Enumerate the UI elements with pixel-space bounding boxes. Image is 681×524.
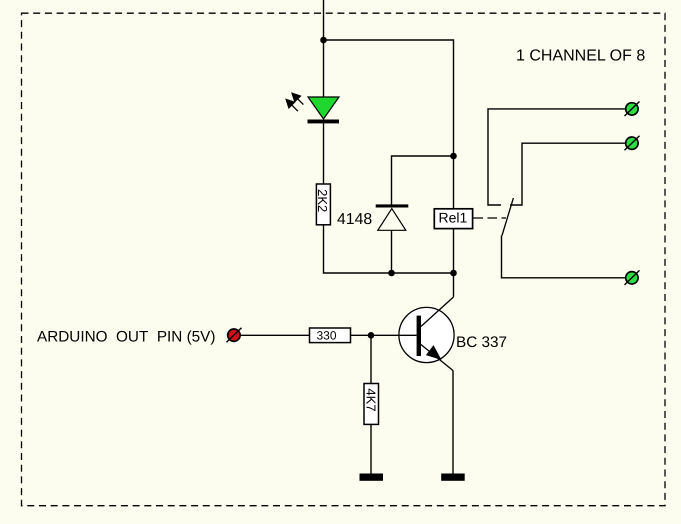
node: collector junction [450,270,457,277]
wire: junction to flyback diode cathode [392,156,454,205]
svg-text:1 CHANNEL OF 8: 1 CHANNEL OF 8 [516,48,645,65]
relay contact: NC branch wire [488,109,626,205]
wire: diode anode to bottom rail [391,230,393,273]
resistor R3 4K7 [363,384,378,425]
LED D1 emission arrows [286,93,303,111]
wire: 4K7 to ground [370,424,372,473]
svg-text:ARDUINO OUT PIN (5V): ARDUINO OUT PIN (5V) [37,329,215,346]
diode D2 4148 (flyback) [376,204,409,230]
wire: pin to base resistor 330 [240,334,309,336]
terminal: NO contact (green) [625,136,640,151]
wire: 330 to base node [351,334,372,336]
wire: LED cathode to resistor 2K2 [323,123,325,184]
wire: relay coil vertical [453,156,455,273]
wire: supply rail to relay branch [324,40,454,156]
wire: supply feed from top edge [323,0,325,40]
LED D1 (green) [308,97,339,119]
resistor R2 330 [310,328,351,343]
wire: emitter to ground [452,371,454,474]
terminal: common contact (green) [625,270,640,285]
terminal: Arduino output pin (red) [227,328,242,343]
relay contact: NO branch wire [510,143,626,205]
wire: bottom rail to collector branch [392,272,454,274]
relay armature (common pole) [502,198,626,278]
transistor Q1 BC337 [399,297,454,371]
svg-text:2K2: 2K2 [315,189,330,212]
node: relay top junction [450,153,457,160]
relay coil Rel1 [434,209,472,229]
wire: 2K2 to bottom rail [324,225,392,273]
dashed actuation link Rel1 to armature [474,217,507,219]
resistor R1 2K2 [316,184,330,225]
node: diode bottom junction [388,270,395,277]
wire: base node down to 4K7 [370,335,372,383]
ground (4K7) [360,474,384,481]
wire: collector junction down to transistor [453,273,455,297]
node: base junction [368,332,375,339]
ground (emitter) [441,474,465,481]
wire: supply junction to LED anode [323,40,325,97]
svg-text:4K7: 4K7 [363,388,378,411]
svg-text:Rel1: Rel1 [439,210,468,226]
svg-text:330: 330 [316,329,336,343]
svg-text:BC 337: BC 337 [456,334,507,351]
svg-text:4148: 4148 [337,211,372,228]
wire: base node to transistor base [371,334,417,336]
node: supply junction [320,37,327,44]
terminal: NC contact (green) [625,102,640,117]
